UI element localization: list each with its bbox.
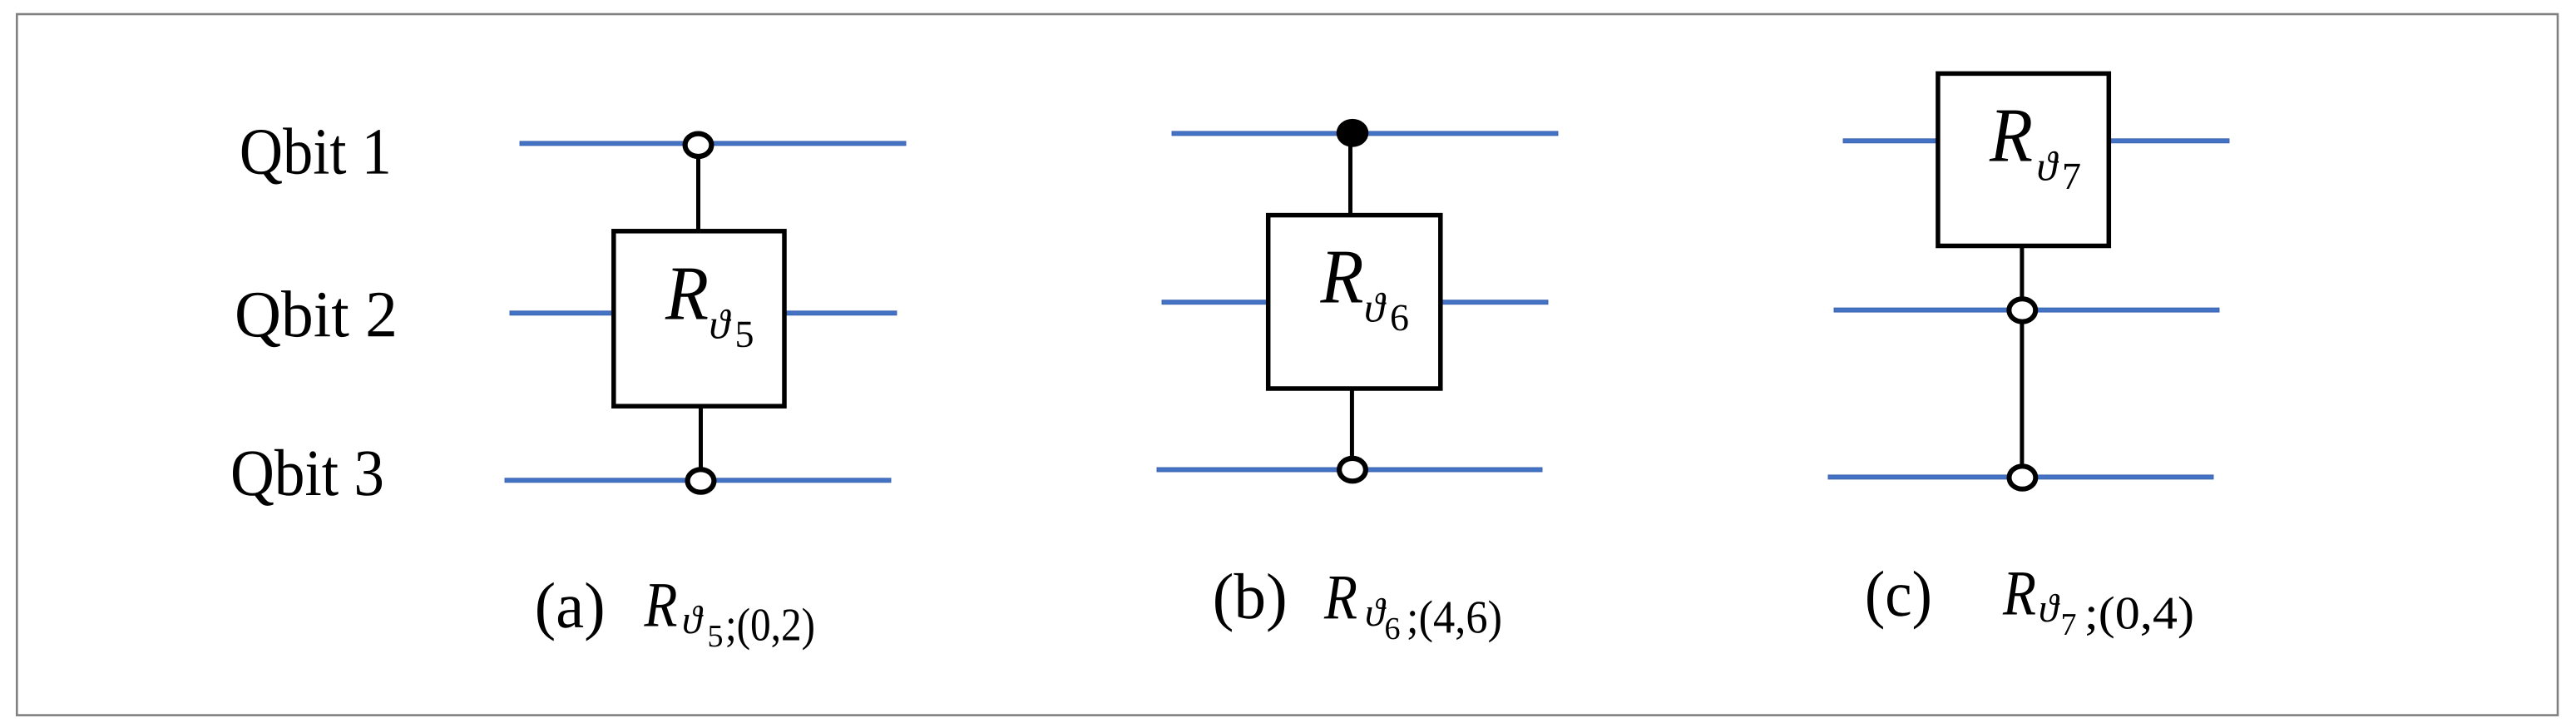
node open control circle (a) on Qbit 1	[685, 134, 712, 156]
label Qbit 2	[237, 290, 394, 347]
value label 7 subscript (c) box	[2064, 164, 2080, 189]
value label R (c) box	[1990, 111, 2032, 161]
wire control link (c): box through Qbit 2 to Qbit 3	[2020, 244, 2024, 476]
value label 6 subscript (b) box	[1392, 305, 1408, 331]
caption (c) R	[2003, 572, 2035, 614]
caption (b) 6	[1386, 618, 1399, 640]
gate box U2 R_theta6 (b)	[1268, 215, 1441, 389]
gate box U3 R_theta7 (c)	[1938, 73, 2109, 245]
node open control circle (c) on Qbit 3	[2010, 466, 2036, 488]
value label 5 subscript (a) box	[737, 322, 753, 348]
caption (b) index	[1215, 573, 1284, 632]
caption (b) ;(4,6)	[1409, 601, 1501, 643]
caption (b) R	[1324, 577, 1357, 618]
value label R (b) box	[1320, 252, 1362, 303]
wire control link (b) top: dot to box	[1348, 135, 1352, 218]
caption (a) theta	[684, 606, 704, 634]
caption (c) theta	[2040, 594, 2060, 622]
caption (a) 5	[710, 626, 722, 646]
wire qubit-3 rail (a)	[505, 478, 891, 483]
node filled control dot (b) on Qbit 1	[1337, 119, 1369, 147]
caption (a) ;(0,2)	[728, 608, 813, 651]
caption (c) index	[1867, 571, 1930, 630]
node open control circle (b) on Qbit 3	[1339, 458, 1366, 481]
wire control link (a) bottom: box to circle	[699, 404, 703, 479]
caption (a) index	[537, 582, 602, 641]
node open control circle (a) on Qbit 3	[688, 469, 714, 492]
wire qubit-3 rail (c)	[1828, 475, 2213, 479]
caption (b) theta	[1367, 598, 1387, 626]
wire qubit-2 rail (c)	[1834, 308, 2219, 312]
caption (a) R	[644, 584, 676, 626]
wire qubit-2 rail (b)	[1162, 300, 1548, 305]
wire qubit-1 rail (b)	[1172, 131, 1558, 136]
caption (c) ;(0,4)	[2087, 597, 2192, 639]
value label theta subscript (c) box	[2039, 151, 2059, 181]
value label R (a) box	[665, 269, 708, 319]
label Qbit 3	[233, 449, 382, 506]
wire qubit-3 rail (b)	[1157, 468, 1542, 472]
label Qbit 1	[242, 127, 388, 184]
gate box U1 R_theta5 (a)	[614, 231, 784, 406]
wire control link (b) bottom: box to circle	[1350, 386, 1354, 468]
wire qubit-2 rail (a)	[510, 311, 897, 315]
node open control circle (c) on Qbit 2	[2009, 299, 2035, 321]
wire qubit-1 rail (a)	[520, 141, 906, 146]
caption (c) 7	[2063, 614, 2075, 635]
value label theta subscript (b) box	[1366, 293, 1387, 322]
wire control link (a) top: circle to box	[696, 146, 700, 234]
value label theta subscript (a) box	[711, 310, 732, 339]
wire qubit-1 rail (c)	[1843, 139, 2229, 143]
